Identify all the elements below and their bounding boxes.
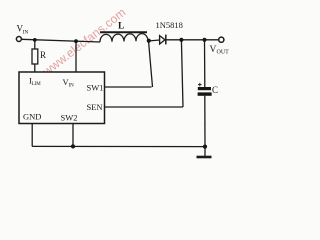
svg-text:SW1: SW1 [87,83,104,93]
svg-text:GND: GND [23,112,41,122]
svg-text:SW2: SW2 [61,113,78,123]
svg-text:IN: IN [69,84,75,89]
svg-text:R: R [40,50,46,60]
svg-text:C: C [212,85,218,95]
svg-text:1N5818: 1N5818 [156,20,183,30]
svg-text:L: L [118,22,124,32]
svg-text:SEN: SEN [87,102,103,112]
svg-text:OUT: OUT [217,50,230,56]
svg-text:IN: IN [23,30,29,36]
svg-text:LIM: LIM [32,82,42,87]
svg-text:V: V [210,45,217,55]
